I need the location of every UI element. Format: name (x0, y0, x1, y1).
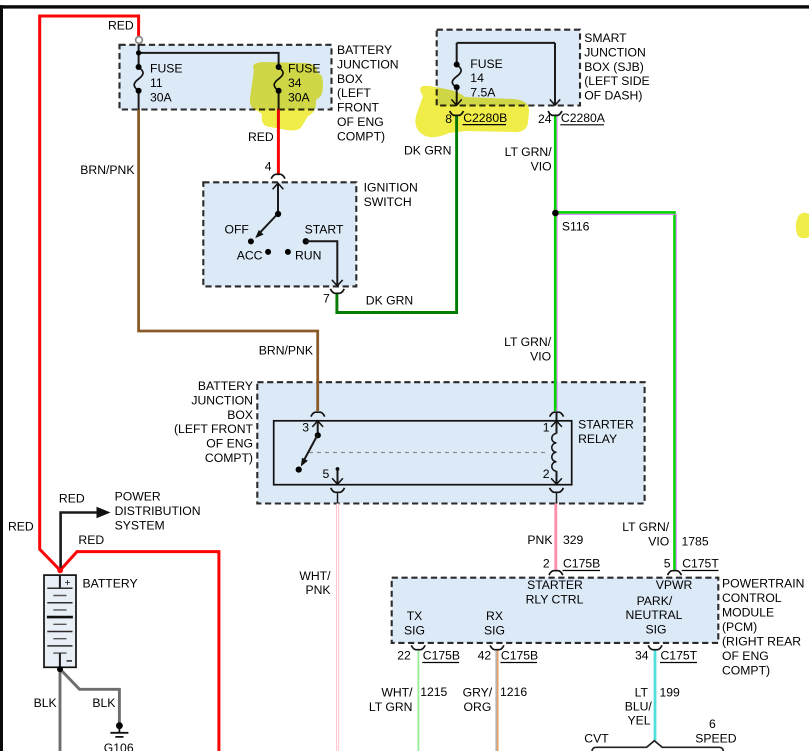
svg-text:VPWR: VPWR (656, 578, 693, 592)
svg-text:POWERTRAIN: POWERTRAIN (722, 576, 804, 590)
battery junction box (top, fuses) (120, 45, 332, 110)
relay pin5 connector (smile) (331, 488, 345, 492)
node RUN contact (285, 249, 291, 255)
svg-text:IGNITION: IGNITION (364, 181, 418, 195)
svg-text:C175T: C175T (661, 649, 698, 663)
svg-text:6: 6 (709, 717, 716, 731)
svg-text:BLK: BLK (34, 696, 57, 710)
svg-text:LT GRN/: LT GRN/ (504, 335, 552, 349)
fuse F34 symbol (274, 67, 283, 91)
svg-text:SWITCH: SWITCH (364, 195, 412, 209)
page top border (0, 5, 809, 8)
battery (44, 575, 76, 667)
wire RED fuse34 to ignition switch (277, 109, 280, 174)
svg-text:(LEFT FRONT: (LEFT FRONT (174, 422, 254, 436)
svg-text:SMART: SMART (584, 31, 627, 45)
svg-text:SIG: SIG (484, 623, 505, 637)
relay coil (552, 434, 557, 472)
wire LT GRN/VIO SJB pin24 to S116 to relay pin1 (554, 116, 557, 412)
svg-text:C175B: C175B (423, 649, 460, 663)
svg-text:G106: G106 (104, 741, 134, 751)
svg-text:BATTERY: BATTERY (198, 379, 253, 393)
svg-text:BOX: BOX (337, 72, 363, 86)
ignition START wire to pin7 (306, 241, 338, 285)
relay switch wiper (304, 435, 318, 462)
svg-text:POWER: POWER (115, 490, 161, 504)
node ACC contact (265, 249, 271, 255)
svg-text:(RIGHT REAR: (RIGHT REAR (722, 635, 801, 649)
node S116 (552, 210, 559, 217)
fuse F11 symbol (134, 67, 143, 91)
svg-text:C175B: C175B (563, 557, 600, 571)
svg-text:JUNCTION: JUNCTION (191, 393, 253, 407)
highlighter mark fuse34 (250, 62, 323, 131)
svg-text:COMPT): COMPT) (205, 451, 253, 465)
relay link dashed line (309, 452, 549, 454)
svg-text:WHT/: WHT/ (381, 686, 413, 700)
arrow SJB pin8 (451, 99, 461, 105)
svg-text:1785: 1785 (682, 535, 709, 549)
SJB internal wiring (457, 43, 555, 105)
fuse F14 symbol (452, 65, 461, 88)
node START contact (303, 238, 309, 244)
connector cup pin24 C2280A (548, 111, 562, 115)
relay pin3 arrow up (317, 421, 319, 434)
svg-text:329: 329 (563, 533, 584, 547)
relay pin2 connector (smile) (550, 488, 564, 492)
wire LT BLU/YEL PCM pin34 down (654, 649, 657, 740)
svg-text:BLK: BLK (92, 696, 115, 710)
svg-text:NEUTRAL: NEUTRAL (626, 608, 683, 622)
svg-text:JUNCTION: JUNCTION (584, 45, 646, 59)
svg-text:GRY/: GRY/ (463, 686, 493, 700)
PCM pin22 connector (smile) (411, 645, 425, 649)
svg-text:30A: 30A (150, 90, 173, 104)
PCM pin34 connector (smile) (648, 645, 662, 649)
svg-text:+: + (65, 577, 71, 589)
svg-text:RED: RED (8, 520, 34, 534)
ignition wiper to OFF (260, 214, 278, 233)
ground G106 (116, 722, 123, 729)
svg-text:DK GRN: DK GRN (366, 294, 413, 308)
arrow SJB pin24 (550, 99, 560, 105)
svg-text:1: 1 (543, 421, 550, 435)
svg-text:START: START (305, 223, 344, 237)
svg-text:1216: 1216 (500, 685, 527, 699)
node OFF contact (248, 238, 254, 244)
svg-text:BATTERY: BATTERY (337, 43, 392, 57)
open connector circle above BJB (136, 37, 143, 44)
svg-text:C2280A: C2280A (561, 111, 606, 125)
svg-text:PARK/: PARK/ (637, 594, 673, 608)
svg-text:CONTROL: CONTROL (722, 591, 782, 605)
wire RED battery to starter (60, 552, 219, 751)
svg-text:11: 11 (150, 76, 163, 90)
page left border (0, 5, 3, 751)
svg-text:OF ENG: OF ENG (337, 115, 384, 129)
svg-text:199: 199 (660, 685, 681, 699)
svg-text:22: 22 (397, 649, 411, 663)
svg-text:LT GRN/: LT GRN/ (505, 145, 553, 159)
fuse F11 junction wires (139, 43, 279, 110)
wire GRY/ORG PCM pin42 down (495, 649, 497, 751)
svg-text:C175T: C175T (682, 557, 719, 571)
svg-text:3: 3 (302, 421, 309, 435)
svg-text:FUSE: FUSE (150, 62, 183, 76)
svg-text:VIO: VIO (648, 535, 669, 549)
svg-text:LT GRN/: LT GRN/ (622, 520, 670, 534)
relay pin2 arrow down (556, 471, 558, 484)
svg-text:4: 4 (265, 160, 272, 174)
ignition switch box (203, 182, 356, 286)
svg-text:BRN/PNK: BRN/PNK (259, 344, 313, 358)
svg-text:LT GRN: LT GRN (369, 700, 413, 714)
stem relay pin2 to box edge (556, 492, 558, 505)
ignition internal: arrow up (277, 183, 279, 213)
arrow power distribution (97, 507, 111, 519)
ignition pin7 connector (smile) (330, 289, 344, 293)
bottom right connector bracket (592, 741, 723, 751)
svg-text:BATTERY: BATTERY (83, 577, 138, 591)
svg-text:RLY CTRL: RLY CTRL (526, 592, 584, 606)
svg-text:RED: RED (59, 492, 85, 506)
relay pin1 stem and arrow up (556, 413, 558, 434)
wire DK GRN ignition pin7 to SJB pin8 (337, 116, 457, 313)
svg-text:SYSTEM: SYSTEM (115, 519, 165, 533)
svg-text:OF ENG: OF ENG (722, 649, 769, 663)
svg-text:SIG: SIG (646, 623, 667, 637)
relay pin3 connector (frown) (311, 412, 325, 416)
svg-text:STARTER: STARTER (527, 578, 583, 592)
highlighter mark right edge (796, 213, 809, 239)
svg-text:24: 24 (538, 112, 552, 126)
svg-text:OF ENG: OF ENG (206, 437, 253, 451)
svg-text:(PCM): (PCM) (722, 620, 757, 634)
svg-text:VIO: VIO (531, 160, 552, 174)
svg-text:COMPT): COMPT) (337, 129, 385, 143)
svg-text:BOX (SJB): BOX (SJB) (584, 60, 644, 74)
svg-text:34: 34 (635, 649, 649, 663)
svg-text:SIG: SIG (404, 623, 425, 637)
svg-text:2: 2 (543, 557, 550, 571)
node battery positive (57, 567, 63, 573)
battery plates (47, 588, 72, 646)
svg-text:PNK: PNK (527, 533, 552, 547)
svg-text:BLU/: BLU/ (625, 700, 653, 714)
starter relay inner case (274, 421, 572, 485)
svg-text:5: 5 (323, 467, 330, 481)
PCM pin42 connector (smile) (490, 645, 504, 649)
svg-text:OFF: OFF (225, 223, 249, 237)
relay pin1 connector (frown) (550, 412, 564, 416)
wire WHT/LT GRN PCM pin22 down (416, 649, 419, 751)
wire BLK battery negative down (59, 669, 62, 751)
svg-text:RUN: RUN (295, 249, 321, 263)
svg-text:5: 5 (664, 557, 671, 571)
ignition switch connector pin4 (frown) (271, 174, 285, 178)
PCM pin2 connector (frown) (549, 571, 563, 575)
svg-text:BOX: BOX (227, 408, 253, 422)
node relay contact (296, 467, 302, 473)
svg-text:OF DASH): OF DASH) (584, 89, 642, 103)
svg-text:LT: LT (635, 686, 649, 700)
wire BLK power distribution (61, 513, 97, 569)
wire RED battery feed from top (40, 16, 139, 570)
wire PNK relay pin2 to PCM pin2 (554, 504, 557, 571)
highlighter mark C2280B (415, 86, 529, 138)
svg-text:2: 2 (543, 467, 550, 481)
svg-text:C175B: C175B (501, 649, 538, 663)
connector cup pin8 C2280B (450, 111, 464, 115)
svg-text:TX: TX (407, 609, 423, 623)
wire BLK battery negative to G106 (60, 669, 119, 723)
wire WHT/PNK relay pin5 down (336, 504, 339, 751)
svg-text:JUNCTION: JUNCTION (337, 57, 399, 71)
svg-text:RED: RED (108, 18, 134, 32)
stem relay pin5 to box edge (337, 492, 339, 505)
svg-text:PNK: PNK (305, 583, 330, 597)
battery junction box (starter relay) (257, 382, 644, 503)
svg-text:DISTRIBUTION: DISTRIBUTION (115, 504, 201, 518)
svg-text:(LEFT SIDE: (LEFT SIDE (584, 74, 649, 88)
svg-text:FUSE: FUSE (470, 57, 503, 71)
svg-text:RELAY: RELAY (578, 432, 617, 446)
wire BRN/PNK fuse11 to relay (139, 109, 318, 411)
relay pin5 arrow down (336, 467, 340, 471)
svg-text:42: 42 (478, 649, 492, 663)
svg-text:COMPT): COMPT) (722, 664, 770, 678)
svg-text:(LEFT: (LEFT (337, 86, 371, 100)
PCM box (392, 578, 719, 643)
smart junction box (SJB) (437, 30, 580, 106)
svg-text:YEL: YEL (627, 714, 650, 728)
svg-text:WHT/: WHT/ (299, 569, 331, 583)
PCM pin5 connector (frown) (668, 571, 682, 575)
svg-text:7: 7 (323, 292, 330, 306)
svg-text:ORG: ORG (464, 700, 492, 714)
svg-text:VIO: VIO (530, 349, 551, 363)
svg-text:RX: RX (486, 609, 503, 623)
svg-text:DK GRN: DK GRN (404, 143, 451, 157)
svg-text:14: 14 (470, 71, 484, 85)
svg-text:RED: RED (78, 533, 104, 547)
wire LT GRN/VIO S116 branch to PCM pin5 (555, 212, 674, 570)
svg-text:CVT: CVT (584, 731, 609, 745)
node battery negative (57, 666, 63, 672)
svg-text:BRN/PNK: BRN/PNK (80, 163, 134, 177)
svg-text:S116: S116 (562, 219, 590, 233)
svg-text:SPEED: SPEED (695, 731, 737, 745)
svg-text:ACC: ACC (237, 249, 263, 263)
svg-text:FRONT: FRONT (337, 101, 380, 115)
svg-text:STARTER: STARTER (578, 418, 634, 432)
svg-text:1215: 1215 (420, 685, 447, 699)
svg-text:RED: RED (248, 130, 274, 144)
svg-text:MODULE: MODULE (722, 605, 774, 619)
